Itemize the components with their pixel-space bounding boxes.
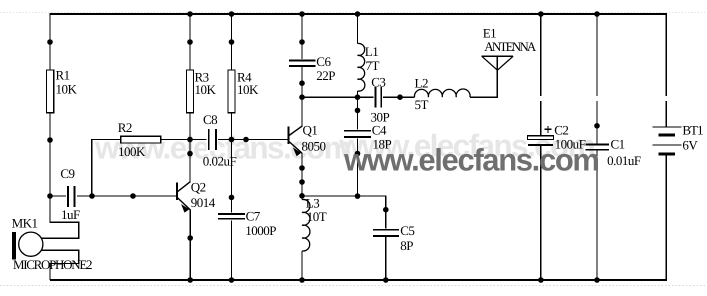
junction dots left column: [47, 137, 136, 199]
wire L1 to tank junction: [357, 91, 359, 97]
wire bottom rail: [50, 279, 667, 281]
inductor L2: [414, 76, 470, 112]
wire C1 column x=597: [596, 13, 598, 280]
svg-text:R1: R1: [56, 68, 70, 83]
resistor R1: [47, 68, 78, 113]
svg-text:MK1: MK1: [12, 215, 38, 230]
svg-text:10K: 10K: [195, 82, 217, 97]
junction dots C5 column: [383, 207, 389, 283]
svg-text:C9: C9: [60, 166, 74, 181]
wire Q2 emitter column lower x=190: [189, 210, 191, 281]
svg-text:C1: C1: [611, 137, 625, 152]
svg-text:8050: 8050: [302, 139, 326, 154]
wire L3/C4 to C5 y=196: [302, 196, 386, 210]
wire mic coupling y=196: [50, 195, 177, 197]
capacitor C2: [528, 123, 586, 152]
resistor R3: [187, 70, 217, 113]
capacitor C8: [203, 112, 237, 168]
svg-text:Q1: Q1: [303, 123, 318, 138]
svg-text:C5: C5: [400, 223, 414, 238]
svg-text:10K: 10K: [56, 82, 78, 97]
svg-text:C3: C3: [371, 75, 385, 90]
wire R4/C7 column x=231.5: [231, 13, 233, 280]
junction dots Q2 emitter column: [187, 235, 193, 283]
svg-text:www.elecfans.com: www.elecfans.com: [343, 143, 599, 178]
microphone MK1: [12, 215, 92, 272]
wire R3 column upper x=190: [189, 13, 191, 182]
capacitor C7: [216, 209, 276, 238]
transistor Q1: [288, 123, 325, 157]
wire RF rail y=97.2: [302, 96, 415, 98]
svg-text:10T: 10T: [307, 209, 327, 224]
faint dotted artifact line bottom: [0, 284, 707, 286]
svg-text:7T: 7T: [366, 58, 380, 73]
svg-text:L1: L1: [365, 44, 378, 59]
svg-text:ANTENNA: ANTENNA: [484, 39, 537, 54]
junction dots base wire node: [187, 137, 249, 157]
svg-text:0.02uF: 0.02uF: [203, 153, 237, 168]
wire tank column x=357.5: [357, 97, 359, 196]
junction dots top rail: [187, 11, 600, 17]
capacitor C4: [344, 123, 392, 152]
wire battery column x=666.3: [665, 13, 667, 280]
svg-text:1uF: 1uF: [61, 207, 80, 222]
svg-text:Q2: Q2: [191, 179, 206, 194]
wire R2 left lead and vertical x=91.6: [92, 140, 121, 197]
svg-text:6V: 6V: [682, 138, 698, 153]
transistor Q2: [177, 179, 216, 212]
capacitor C6: [289, 54, 335, 83]
svg-text:8P: 8P: [400, 238, 413, 253]
svg-text:C2: C2: [554, 123, 568, 138]
wire C2 column x=540.9: [540, 13, 542, 280]
svg-text:R2: R2: [118, 120, 132, 135]
wire C6/Q1 column upper x=302: [301, 13, 303, 127]
antenna E1: [482, 26, 537, 70]
svg-text:MICROPHONE2: MICROPHONE2: [13, 257, 92, 272]
wire L1 top lead x=357.5: [357, 13, 359, 44]
junction dot C1 top: [594, 123, 600, 129]
wire C5 column x=385.8: [385, 210, 387, 280]
wire mic top lead: [41, 196, 79, 238]
capacitor C3: [371, 75, 390, 125]
faint dotted artifact line top: [0, 11, 707, 13]
wire L2 to antenna: [470, 56, 497, 97]
capacitor C1: [585, 137, 641, 168]
junction dots C7 column: [229, 195, 235, 283]
inductor L3: [302, 195, 327, 251]
junction dots Q1/L3 column: [299, 80, 305, 282]
svg-text:0.01uF: 0.01uF: [607, 153, 641, 168]
wire R2 to Q1 base y=139.5: [161, 139, 289, 141]
battery BT1: [652, 123, 703, 156]
svg-text:BT1: BT1: [682, 123, 703, 138]
wire Q1 emitter to L3 x=302: [301, 153, 303, 200]
svg-text:C4: C4: [372, 123, 387, 138]
svg-text:30P: 30P: [371, 110, 390, 125]
junction dots bottom rail right: [538, 277, 600, 283]
svg-text:L2: L2: [415, 76, 428, 91]
svg-text:10K: 10K: [237, 82, 259, 97]
svg-text:C7: C7: [246, 209, 261, 224]
svg-text:22P: 22P: [316, 68, 335, 83]
svg-text:1000P: 1000P: [245, 223, 276, 238]
resistor R4: [228, 70, 259, 113]
resistor R2: [118, 120, 161, 159]
svg-text:C6: C6: [316, 54, 331, 69]
wire mic bottom lead: [41, 250, 79, 280]
wire top rail: [50, 13, 666, 15]
junction dots y=42 row: [47, 39, 305, 45]
inductor L1: [358, 43, 380, 91]
capacitor C5: [373, 223, 415, 253]
svg-text:5T: 5T: [415, 97, 429, 112]
junction dot C3 right: [397, 94, 403, 100]
capacitor C9: [60, 166, 80, 222]
wire left column x=50: [49, 13, 51, 222]
svg-text:C8: C8: [203, 112, 217, 127]
svg-text:100K: 100K: [118, 144, 146, 159]
wire L3 to bottom rail: [301, 251, 303, 280]
svg-text:9014: 9014: [191, 195, 216, 210]
junction dots tank column: [355, 94, 361, 199]
